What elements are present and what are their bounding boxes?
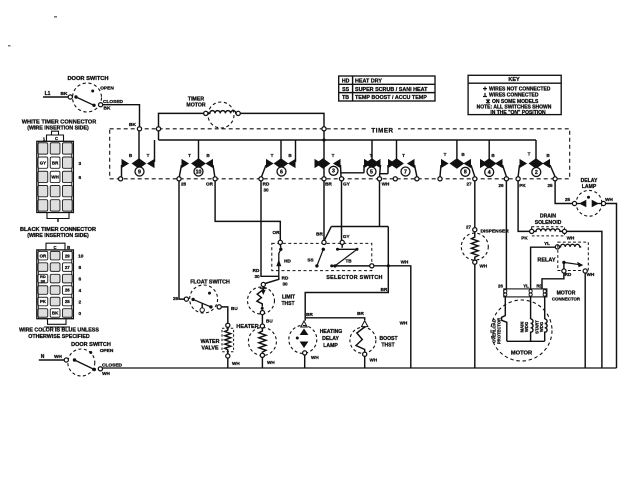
- selector OR terminal: [278, 240, 282, 244]
- boost thermostat element: [356, 327, 365, 352]
- timer bottom terminal BR: [322, 177, 326, 181]
- timer contact cam 8 right arrow: [463, 159, 471, 168]
- svg-text:PROTECTOR: PROTECTOR: [497, 318, 502, 344]
- svg-text:RD: RD: [536, 284, 542, 289]
- svg-text:BU: BU: [266, 318, 273, 323]
- svg-text:OTHERWISE SPECIFIED: OTHERWISE SPECIFIED: [28, 334, 90, 340]
- timer bottom terminal 28: [177, 177, 181, 181]
- timer contact cam 10 pole wire: [198, 140, 200, 160]
- heater bottom terminal: [260, 353, 264, 357]
- svg-text:8: 8: [78, 265, 81, 271]
- svg-text:WH: WH: [311, 355, 319, 360]
- wire BR diagonal to selector BR contact: [325, 227, 332, 240]
- delay lamp right terminal: [601, 201, 605, 205]
- wire RD-30 timer down: [261, 181, 279, 276]
- svg-text:SS: SS: [307, 258, 313, 263]
- key symbol on some models: [486, 100, 490, 104]
- svg-text:10: 10: [78, 254, 84, 260]
- svg-text:27: 27: [65, 265, 70, 270]
- timer contact cam 6 left contact wire: [262, 165, 267, 177]
- timer contact cam 4 right contact wire: [503, 165, 507, 177]
- timer contact cam 9 left arrow: [122, 159, 130, 168]
- svg-text:5: 5: [370, 169, 373, 175]
- timer contact cam 9 right contact wire: [154, 140, 156, 162]
- heating delay lamp upper electrode: [300, 329, 309, 336]
- timer bottom terminal blank 2: [415, 177, 419, 181]
- water valve coil: [225, 327, 231, 354]
- svg-text:GY: GY: [343, 234, 350, 239]
- selector bottom wire: [332, 265, 370, 267]
- svg-text:6: 6: [78, 175, 81, 181]
- relay contact blade: [564, 262, 580, 264]
- motor winding common bar: [507, 340, 545, 342]
- black connector top bracket: [46, 243, 65, 250]
- svg-text:N: N: [41, 354, 45, 360]
- limit thermostat top terminal: [261, 282, 265, 286]
- svg-text:HEAT DRY: HEAT DRY: [355, 79, 382, 85]
- svg-text:DOOR SWITCH: DOOR SWITCH: [67, 76, 108, 82]
- wire 25 timer to delay lamp: [555, 181, 572, 204]
- wire relay WH to neutral rail: [584, 273, 586, 368]
- svg-text:WIRES NOT CONNECTED: WIRES NOT CONNECTED: [489, 86, 551, 92]
- svg-text:LAMP: LAMP: [323, 343, 338, 349]
- delay lamp left terminal: [572, 201, 576, 205]
- svg-text:THST: THST: [381, 343, 395, 349]
- svg-text:VALVE: VALVE: [201, 345, 219, 351]
- relay pivot to RD terminal wire: [563, 262, 565, 269]
- heating delay lamp dot: [296, 337, 299, 340]
- svg-text:27: 27: [466, 225, 472, 230]
- selector GY stub: [341, 245, 343, 248]
- drain solenoid left terminal: [530, 229, 534, 233]
- svg-text:GY: GY: [343, 182, 350, 187]
- svg-text:BR: BR: [381, 287, 388, 292]
- delay lamp electrode right: [592, 200, 599, 208]
- motor connector terminal RD: [543, 290, 546, 293]
- svg-text:LAMP: LAMP: [582, 184, 597, 190]
- svg-text:BR: BR: [52, 160, 59, 165]
- door switch DS2 closed contact: [98, 367, 102, 371]
- dispenser coil: [471, 232, 478, 260]
- wire neutral rail: [103, 367, 617, 369]
- motor start winding coil: [545, 319, 547, 341]
- boost thermostat top arrow: [362, 321, 368, 327]
- white timer connector top bracket: [47, 135, 64, 141]
- drain solenoid right terminal: [562, 229, 566, 233]
- wire timer motor to cam 3 drop: [240, 113, 324, 126]
- timer motor TM right terminal: [236, 111, 240, 115]
- motor M1 dashed circle: [491, 300, 552, 361]
- svg-text:T: T: [332, 153, 335, 158]
- selector TB bar: [338, 248, 358, 250]
- svg-text:WH: WH: [567, 236, 575, 241]
- door switch DS2 open contact dot: [89, 351, 92, 354]
- svg-text:BOOST: BOOST: [379, 336, 398, 342]
- svg-text:HD: HD: [342, 79, 350, 85]
- svg-text:T: T: [188, 153, 191, 158]
- selector TB bar left dot: [336, 248, 339, 251]
- timer contact cam 7 diamond: [389, 158, 404, 168]
- delay lamp wire into left electrode: [577, 203, 580, 205]
- svg-text:30: 30: [282, 282, 288, 287]
- boost thermostat dashed circle: [350, 327, 376, 353]
- wire OR timer to selector switch: [215, 181, 280, 240]
- timer bottom terminal RD-30: [259, 177, 263, 181]
- timer contact cam 8 left arrow: [441, 159, 449, 168]
- svg-text:25: 25: [547, 183, 553, 188]
- svg-text:RD: RD: [253, 268, 260, 273]
- svg-text:IN THE "ON" POSITION: IN THE "ON" POSITION: [490, 110, 546, 116]
- svg-text:PK: PK: [519, 183, 526, 188]
- svg-text:YL: YL: [523, 284, 529, 289]
- svg-text:BR: BR: [306, 312, 313, 317]
- dispenser bottom terminal: [473, 260, 477, 264]
- selector HD blade arrowhead: [276, 259, 281, 266]
- svg-text:6: 6: [280, 169, 283, 175]
- black connector socket cells: [38, 251, 48, 260]
- svg-text:T: T: [271, 153, 274, 158]
- timer contact cam 3 right contact wire: [340, 165, 343, 177]
- heating delay lamp dashed circle: [289, 325, 317, 353]
- door switch DS2 blade: [75, 360, 95, 370]
- motor overload protector wire: [502, 296, 507, 341]
- svg-text:2: 2: [78, 300, 81, 306]
- heater element zigzag: [259, 328, 266, 353]
- wire WH timer down: [379, 181, 381, 227]
- motor connector bar: [504, 289, 547, 297]
- svg-text:TB: TB: [345, 259, 352, 264]
- svg-text:DISPENSER: DISPENSER: [481, 229, 510, 235]
- black connector bottom bracket: [48, 319, 67, 325]
- cam number 7: [401, 167, 410, 176]
- timer contact cam 8 left contact wire: [440, 165, 441, 177]
- timer contact cam 7 right arrow: [407, 159, 415, 168]
- timer contact cam 10 left arrow: [182, 159, 190, 168]
- wire BR timer to selector: [323, 181, 325, 240]
- svg-text:WH: WH: [370, 358, 378, 363]
- wire timer internal bus: [159, 139, 537, 141]
- svg-text:HEATER: HEATER: [236, 324, 259, 330]
- door switch DS1 blade: [76, 97, 94, 105]
- water valve dashed box: [222, 328, 234, 351]
- svg-text:RELAY: RELAY: [537, 258, 555, 264]
- cam number 3: [329, 166, 338, 175]
- timer bottom terminal PK: [516, 177, 520, 181]
- internal link WH to cam7: [380, 173, 389, 175]
- svg-text:26: 26: [498, 183, 504, 188]
- timer contact cam 6 right contact wire: [295, 140, 297, 162]
- timer contact cam 7 left arrow: [388, 159, 396, 168]
- timer contact cam 3 right arrow: [333, 159, 341, 168]
- svg-text:T: T: [370, 153, 373, 158]
- svg-text:4: 4: [488, 170, 491, 176]
- svg-text:C: C: [55, 136, 58, 141]
- timer contact cam 2 left arrow: [520, 159, 528, 168]
- float switch blade: [193, 299, 211, 307]
- selector SS blade: [317, 249, 323, 266]
- svg-text:PK: PK: [521, 236, 528, 241]
- svg-text:HEATING: HEATING: [320, 329, 343, 335]
- timer contact cam 3 diamond: [316, 158, 331, 168]
- delay lamp dot: [587, 196, 590, 199]
- timer motor TM left terminal: [204, 111, 208, 115]
- timer bottom terminal OR: [213, 177, 217, 181]
- heating delay lamp bottom terminal: [303, 351, 307, 355]
- svg-text:29: 29: [173, 296, 179, 301]
- svg-text:SOLENOID: SOLENOID: [535, 220, 562, 226]
- svg-text:WIRE COLOR IS BLUE UNLESS: WIRE COLOR IS BLUE UNLESS: [19, 328, 99, 334]
- selector switch dashed box: [272, 243, 372, 270]
- timer contact cam 5 left arrow: [364, 159, 372, 168]
- timer contact cam 2 left contact wire: [518, 165, 519, 177]
- svg-text:BK: BK: [129, 122, 136, 128]
- cam number 2: [532, 168, 541, 177]
- svg-text:SUPER SCRUB / SANI HEAT: SUPER SCRUB / SANI HEAT: [355, 87, 428, 93]
- timer contact cam 3 left arrow: [315, 159, 323, 168]
- door switch DS1 pivot: [74, 95, 77, 98]
- svg-text:0: 0: [78, 311, 81, 317]
- limit thermostat dashed circle: [248, 287, 275, 314]
- delay lamp wire into right electrode: [598, 203, 601, 205]
- white connector socket cells: [38, 143, 48, 154]
- selector SS pivot dot: [322, 248, 325, 251]
- timer bottom terminal blank 1: [393, 177, 397, 181]
- float switch blade end dot: [209, 305, 212, 308]
- svg-text:DELAY: DELAY: [322, 336, 339, 342]
- selector TB blade end dot: [333, 264, 336, 267]
- wire N feed: [39, 359, 64, 361]
- timer contact cam 6 left arrow: [266, 159, 274, 168]
- door switch DS2 input terminal: [64, 358, 68, 362]
- svg-text:RD: RD: [282, 276, 289, 281]
- wire L1 feed: [43, 96, 68, 98]
- limit thermostat bottom terminal: [260, 311, 264, 315]
- door switch DS2 blade end dot: [93, 368, 96, 371]
- svg-text:MOTOR: MOTOR: [186, 103, 205, 109]
- timer bottom terminal blank 3: [438, 177, 442, 181]
- svg-text:10: 10: [196, 169, 202, 175]
- timer contact cam 8 right contact wire: [471, 165, 475, 177]
- svg-text:BK: BK: [104, 106, 111, 112]
- timer contact cam 9 pole wire: [138, 131, 140, 160]
- svg-text:WH: WH: [401, 260, 409, 265]
- svg-text:8: 8: [464, 170, 467, 176]
- heater dashed circle: [248, 328, 276, 356]
- relay WH terminal: [583, 269, 587, 273]
- wire RD-30 jog to limit thermostat: [265, 276, 279, 283]
- motor connector terminal 26: [504, 290, 507, 293]
- limit thermostat element: [257, 287, 267, 307]
- wire GY timer to selector: [341, 181, 343, 240]
- door switch DS2 pivot dot: [73, 358, 76, 361]
- float switch pivot dot: [191, 298, 194, 301]
- timer contact cam 9 left contact wire: [121, 165, 123, 177]
- motor connector terminal YL: [529, 290, 532, 293]
- svg-text:27: 27: [466, 182, 472, 187]
- timer top terminal (cam 3 feed): [322, 127, 326, 131]
- timer top terminal BK (door switch): [137, 127, 141, 131]
- heater top terminal: [260, 324, 264, 328]
- cam number 9: [135, 167, 144, 176]
- svg-text:OR: OR: [273, 230, 281, 235]
- svg-text:OPEN: OPEN: [100, 86, 114, 92]
- wire heater to neutral rail: [261, 357, 263, 368]
- wire YL motor connector to relay coil: [531, 247, 556, 289]
- motor main winding coil: [531, 319, 533, 341]
- svg-text:BK: BK: [52, 311, 59, 316]
- svg-text:WH: WH: [587, 272, 595, 277]
- svg-text:6: 6: [78, 277, 81, 283]
- svg-text:WDG: WDG: [524, 322, 529, 332]
- door switch DS1 blade end dot: [92, 104, 95, 107]
- timer contact cam 2 pole wire: [535, 140, 537, 160]
- wire BR branch to boost thermostat: [305, 318, 365, 320]
- svg-text:2: 2: [535, 170, 538, 176]
- cam number 5: [367, 167, 376, 176]
- svg-text:WATER: WATER: [200, 339, 219, 345]
- svg-text:WH: WH: [51, 175, 58, 180]
- wire delay lamp to neutral rail: [606, 204, 617, 369]
- svg-text:DOOR SWITCH: DOOR SWITCH: [71, 342, 111, 348]
- timer contact cam 4 diamond: [482, 158, 497, 168]
- wire door switch to timer terminal: [103, 105, 140, 127]
- wire 28 timer to float switch: [179, 181, 184, 299]
- svg-text:TEMP BOOST / ACCU TEMP: TEMP BOOST / ACCU TEMP: [355, 95, 427, 101]
- svg-text:LIMIT: LIMIT: [282, 294, 295, 300]
- wire relay RD to motor connector: [542, 273, 564, 289]
- timer contact cam 10 right contact wire: [213, 165, 215, 177]
- svg-text:B: B: [67, 245, 70, 250]
- svg-text:26: 26: [498, 284, 503, 289]
- delay lamp electrode left: [579, 200, 586, 208]
- timer bottom terminal 26: [504, 177, 508, 181]
- svg-text:9: 9: [138, 169, 141, 175]
- svg-text:WH: WH: [267, 360, 275, 365]
- svg-text:WDG: WDG: [539, 322, 544, 332]
- svg-text:DRAIN: DRAIN: [540, 214, 556, 220]
- timer top terminal (timer motor): [156, 127, 160, 131]
- relay blade arrowhead: [577, 262, 583, 268]
- relay coil left terminal: [555, 245, 559, 249]
- svg-text:OPEN: OPEN: [100, 348, 114, 354]
- timer contact cam 5 left contact wire: [363, 165, 365, 173]
- timer contact cam 7 right contact wire: [415, 165, 417, 177]
- key box: [468, 75, 561, 114]
- float actuator stub: [201, 303, 203, 308]
- cam number 10: [194, 167, 203, 176]
- timer contact cam 6 diamond: [274, 158, 289, 168]
- timer contact cam 10 left contact wire: [179, 165, 181, 177]
- svg-text:29: 29: [65, 253, 70, 258]
- white timer connector body: [37, 141, 74, 212]
- wire timer terminal to timer motor: [159, 113, 204, 126]
- svg-text:PK: PK: [40, 299, 47, 304]
- wire float switch to water valve: [221, 307, 228, 323]
- timer contact cam 8 diamond: [450, 158, 465, 168]
- svg-text:WH: WH: [102, 371, 110, 376]
- svg-text:OR: OR: [206, 182, 214, 187]
- svg-text:30: 30: [254, 274, 260, 279]
- wire boost thermostat to rail: [364, 356, 366, 368]
- drain solenoid coil: [534, 229, 562, 232]
- timer bottom terminal 27: [473, 177, 477, 181]
- selector bottom left dot: [330, 264, 333, 267]
- timer contact cam 6 right arrow: [288, 159, 296, 168]
- timer contact cam 2 right arrow: [542, 159, 550, 168]
- timer contact cam 5 pole wire: [371, 140, 373, 160]
- selector TB bar right dot: [356, 248, 359, 251]
- svg-text:T: T: [402, 153, 405, 158]
- svg-text:KEY: KEY: [508, 77, 520, 83]
- svg-text:BU: BU: [231, 306, 238, 311]
- wire bus from top terminal: [158, 131, 160, 140]
- timer contact cam 5 right arrow: [373, 159, 381, 168]
- svg-text:T: T: [528, 152, 531, 157]
- timer contact cam 9 right arrow: [147, 159, 155, 168]
- key symbol wires connected: [483, 96, 487, 98]
- svg-text:RD: RD: [263, 182, 270, 187]
- dispenser top terminal: [473, 228, 477, 232]
- timer contact cam 4 pole wire: [488, 140, 490, 160]
- timer contact cam 4 right arrow: [495, 159, 503, 168]
- water valve bottom terminal: [226, 354, 230, 358]
- wire 27 timer to dispenser: [474, 181, 476, 228]
- cam number 8: [461, 167, 470, 176]
- svg-text:WIRES CONNECTED: WIRES CONNECTED: [489, 93, 539, 99]
- svg-text:3: 3: [78, 161, 81, 167]
- svg-text:25: 25: [565, 197, 571, 202]
- svg-text:WH: WH: [400, 321, 408, 326]
- svg-text:(WIRE INSERTION SIDE): (WIRE INSERTION SIDE): [27, 125, 89, 131]
- svg-text:SS: SS: [342, 87, 349, 93]
- svg-text:BR: BR: [325, 182, 332, 187]
- timer contact cam 7 left contact wire: [387, 165, 389, 174]
- timer contact cam 9 diamond: [132, 158, 147, 168]
- door switch DS1 closed contact: [99, 103, 103, 107]
- svg-text:4: 4: [78, 288, 81, 294]
- wire 26 timer to motor connector: [505, 181, 507, 289]
- svg-text:C: C: [53, 245, 56, 250]
- drain solenoid dashed box: [532, 227, 565, 236]
- timer contact cam 2 diamond: [529, 158, 544, 168]
- svg-text:(WIRE INSERTION SIDE): (WIRE INSERTION SIDE): [27, 233, 89, 239]
- selector right terminal: [370, 264, 374, 268]
- water valve top terminal: [226, 323, 230, 327]
- svg-text:BR: BR: [357, 311, 364, 316]
- timer bottom terminal WH: [377, 177, 381, 181]
- door switch DS1 dashed circle: [73, 83, 102, 112]
- limit thermostat down arrow: [261, 290, 266, 295]
- svg-text:WH: WH: [480, 264, 488, 269]
- wire BR vertical right: [305, 227, 388, 321]
- svg-text:WH: WH: [54, 354, 62, 359]
- timer contact cam 4 left arrow: [480, 159, 488, 168]
- cam number 4: [485, 168, 494, 177]
- svg-text:WH: WH: [605, 197, 613, 202]
- svg-text:TIMER: TIMER: [371, 127, 393, 134]
- svg-text:OR: OR: [40, 253, 47, 258]
- svg-text:L1: L1: [45, 91, 51, 97]
- timer bottom terminal 1: [119, 177, 123, 181]
- timer contact cam 7 pole wire: [396, 140, 398, 160]
- selector BR terminal: [322, 240, 326, 244]
- timer assembly dashed box: [110, 129, 570, 179]
- delay lamp DL dashed circle: [576, 190, 602, 216]
- wire BR link horizontal: [331, 226, 388, 228]
- motor main winding wire: [530, 296, 532, 319]
- svg-text:THST: THST: [281, 301, 294, 307]
- timer bottom terminal 25: [553, 177, 557, 181]
